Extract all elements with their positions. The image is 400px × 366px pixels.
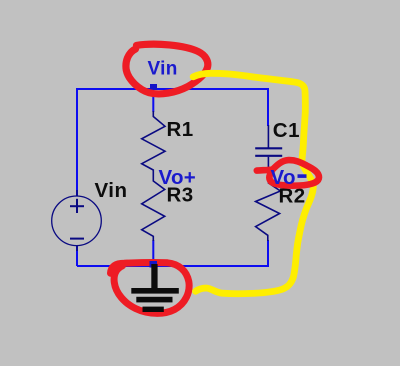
svg-text:Vin: Vin bbox=[148, 59, 178, 80]
svg-text:C1: C1 bbox=[273, 119, 300, 142]
svg-text:Vin: Vin bbox=[95, 179, 128, 202]
svg-text:Vo: Vo bbox=[271, 166, 296, 189]
svg-text:R1: R1 bbox=[167, 118, 194, 141]
svg-text:Vo+: Vo+ bbox=[159, 166, 197, 189]
